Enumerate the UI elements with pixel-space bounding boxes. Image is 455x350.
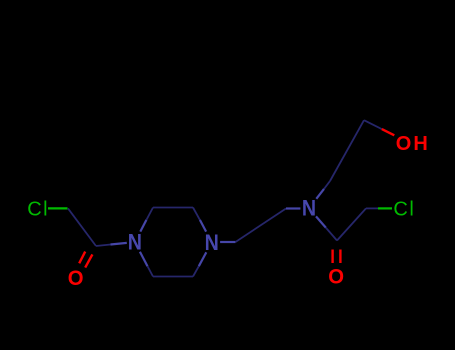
svg-text:OH: OH xyxy=(396,133,430,155)
svg-text:N: N xyxy=(205,230,219,255)
svg-text:Cl: Cl xyxy=(27,199,49,221)
svg-text:O: O xyxy=(328,265,344,289)
svg-text:O: O xyxy=(68,266,84,290)
svg-text:Cl: Cl xyxy=(393,199,415,221)
svg-text:N: N xyxy=(128,230,142,255)
svg-text:N: N xyxy=(302,196,316,221)
